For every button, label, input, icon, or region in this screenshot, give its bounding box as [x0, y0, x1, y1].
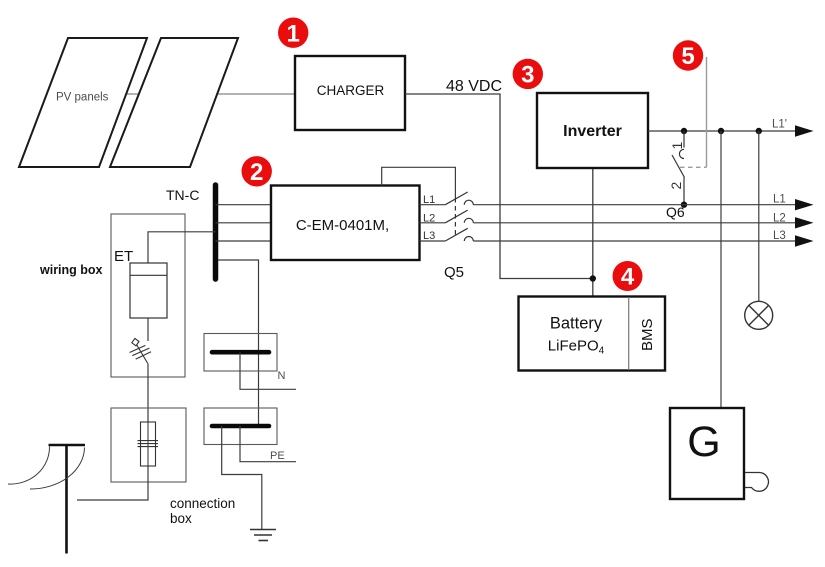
svg-text:1: 1: [287, 20, 300, 47]
arrow L1': [795, 125, 814, 136]
svg-text:PE: PE: [270, 450, 285, 462]
wire busbar to meter L2: [216, 222, 272, 224]
svg-text:TN-C: TN-C: [166, 187, 199, 203]
junction node battery bus: [590, 275, 596, 281]
svg-text:4: 4: [621, 264, 635, 291]
wire inverter to battery: [592, 168, 594, 297]
svg-text:connection: connection: [170, 496, 235, 511]
marker 4: [613, 261, 643, 291]
charger box: [295, 56, 405, 130]
mechanical link Q6 dashed: [680, 166, 707, 168]
svg-text:1: 1: [669, 142, 685, 150]
wire charger to 48VDC node: [405, 94, 593, 279]
svg-text:48 VDC: 48 VDC: [446, 78, 502, 95]
wire fuse through: [147, 422, 149, 466]
switch Q5 pole L3: [445, 228, 473, 241]
wire L1 phase: [420, 204, 797, 206]
wire N bar to PE bar: [258, 352, 260, 426]
wire lamp: [758, 131, 760, 302]
busbar TN-C: [213, 185, 219, 279]
battery box: [519, 297, 666, 371]
connection box: [111, 408, 186, 482]
marker 2: [242, 156, 272, 186]
marker 5: [673, 40, 703, 70]
wire PV panels to charger: [124, 93, 295, 95]
switch Q6: [672, 131, 685, 205]
svg-text:Q5: Q5: [444, 264, 464, 281]
inverter box: [537, 93, 648, 168]
svg-text:2: 2: [250, 159, 263, 186]
svg-text:L1: L1: [773, 194, 786, 206]
lamp: [745, 301, 773, 329]
svg-text:L3: L3: [773, 230, 786, 242]
wire L3 phase: [420, 240, 797, 242]
svg-text:C-EM-0401M,: C-EM-0401M,: [296, 217, 389, 234]
wire PE output: [240, 426, 296, 462]
PE box: [204, 408, 277, 445]
svg-text:2: 2: [668, 182, 684, 190]
svg-text:LiFePO4: LiFePO4: [548, 338, 605, 357]
wire breaker to fuse: [147, 363, 149, 422]
wire link marker5: [706, 57, 708, 167]
svg-text:N: N: [278, 370, 286, 382]
BMS divider: [628, 297, 630, 370]
wire N output: [240, 352, 296, 389]
wire busbar to meter L3: [216, 240, 272, 242]
junction node lamp branch: [756, 128, 762, 134]
svg-text:PV panels: PV panels: [56, 92, 109, 104]
ground: [250, 530, 276, 541]
wire meter top to Q5 linkage: [382, 167, 456, 198]
fuse F1: [138, 422, 159, 466]
wire inverter output L1': [648, 130, 796, 132]
wire generator: [720, 131, 722, 408]
svg-text:5: 5: [681, 43, 694, 70]
wire PE to ground: [222, 426, 262, 529]
meter C-EM-0401M box: [271, 186, 420, 261]
N box: [204, 334, 277, 372]
svg-text:L2: L2: [773, 213, 786, 225]
svg-text:L3: L3: [423, 230, 435, 242]
arrow L3: [795, 235, 814, 246]
wire ET to breaker: [147, 318, 149, 341]
svg-text:Q6: Q6: [666, 204, 685, 220]
wire L2 phase: [420, 222, 797, 224]
marker 3: [513, 59, 543, 89]
marker 1: [278, 18, 308, 48]
socket notch: [745, 473, 768, 492]
junction node Q6 bottom: [681, 202, 687, 208]
svg-text:Inverter: Inverter: [563, 123, 622, 140]
label connection box: [170, 496, 235, 526]
svg-text:wiring box: wiring box: [39, 263, 103, 277]
switch Q5 pole L1: [445, 192, 473, 205]
svg-text:3: 3: [521, 62, 534, 89]
svg-text:G: G: [687, 418, 720, 466]
wire busbar to N bar: [218, 260, 259, 352]
svg-text:L1': L1': [772, 118, 787, 130]
svg-text:box: box: [170, 511, 192, 526]
wire fuse to stub: [77, 466, 148, 500]
wiring box: [111, 214, 185, 377]
junction node generator branch: [718, 128, 724, 134]
generator G box: [670, 408, 744, 499]
earth electrode: [8, 445, 85, 554]
PV panel 1: [19, 38, 147, 167]
PE busbar: [212, 424, 269, 429]
arrow L1: [795, 199, 814, 210]
fuse ET: [130, 263, 167, 318]
junction node Q6 top: [681, 128, 687, 134]
wire busbar to ET: [148, 232, 216, 263]
breaker symbol: [130, 338, 151, 363]
svg-text:Battery: Battery: [550, 315, 603, 333]
mechanical link Q5 dashed: [454, 198, 456, 236]
arrow L2: [795, 217, 814, 228]
svg-text:BMS: BMS: [639, 318, 656, 351]
N busbar: [212, 350, 269, 355]
wire busbar to meter L1: [216, 204, 272, 206]
switch Q5 pole L2: [445, 210, 473, 223]
svg-text:CHARGER: CHARGER: [317, 83, 385, 98]
PV panel 2: [110, 38, 238, 167]
